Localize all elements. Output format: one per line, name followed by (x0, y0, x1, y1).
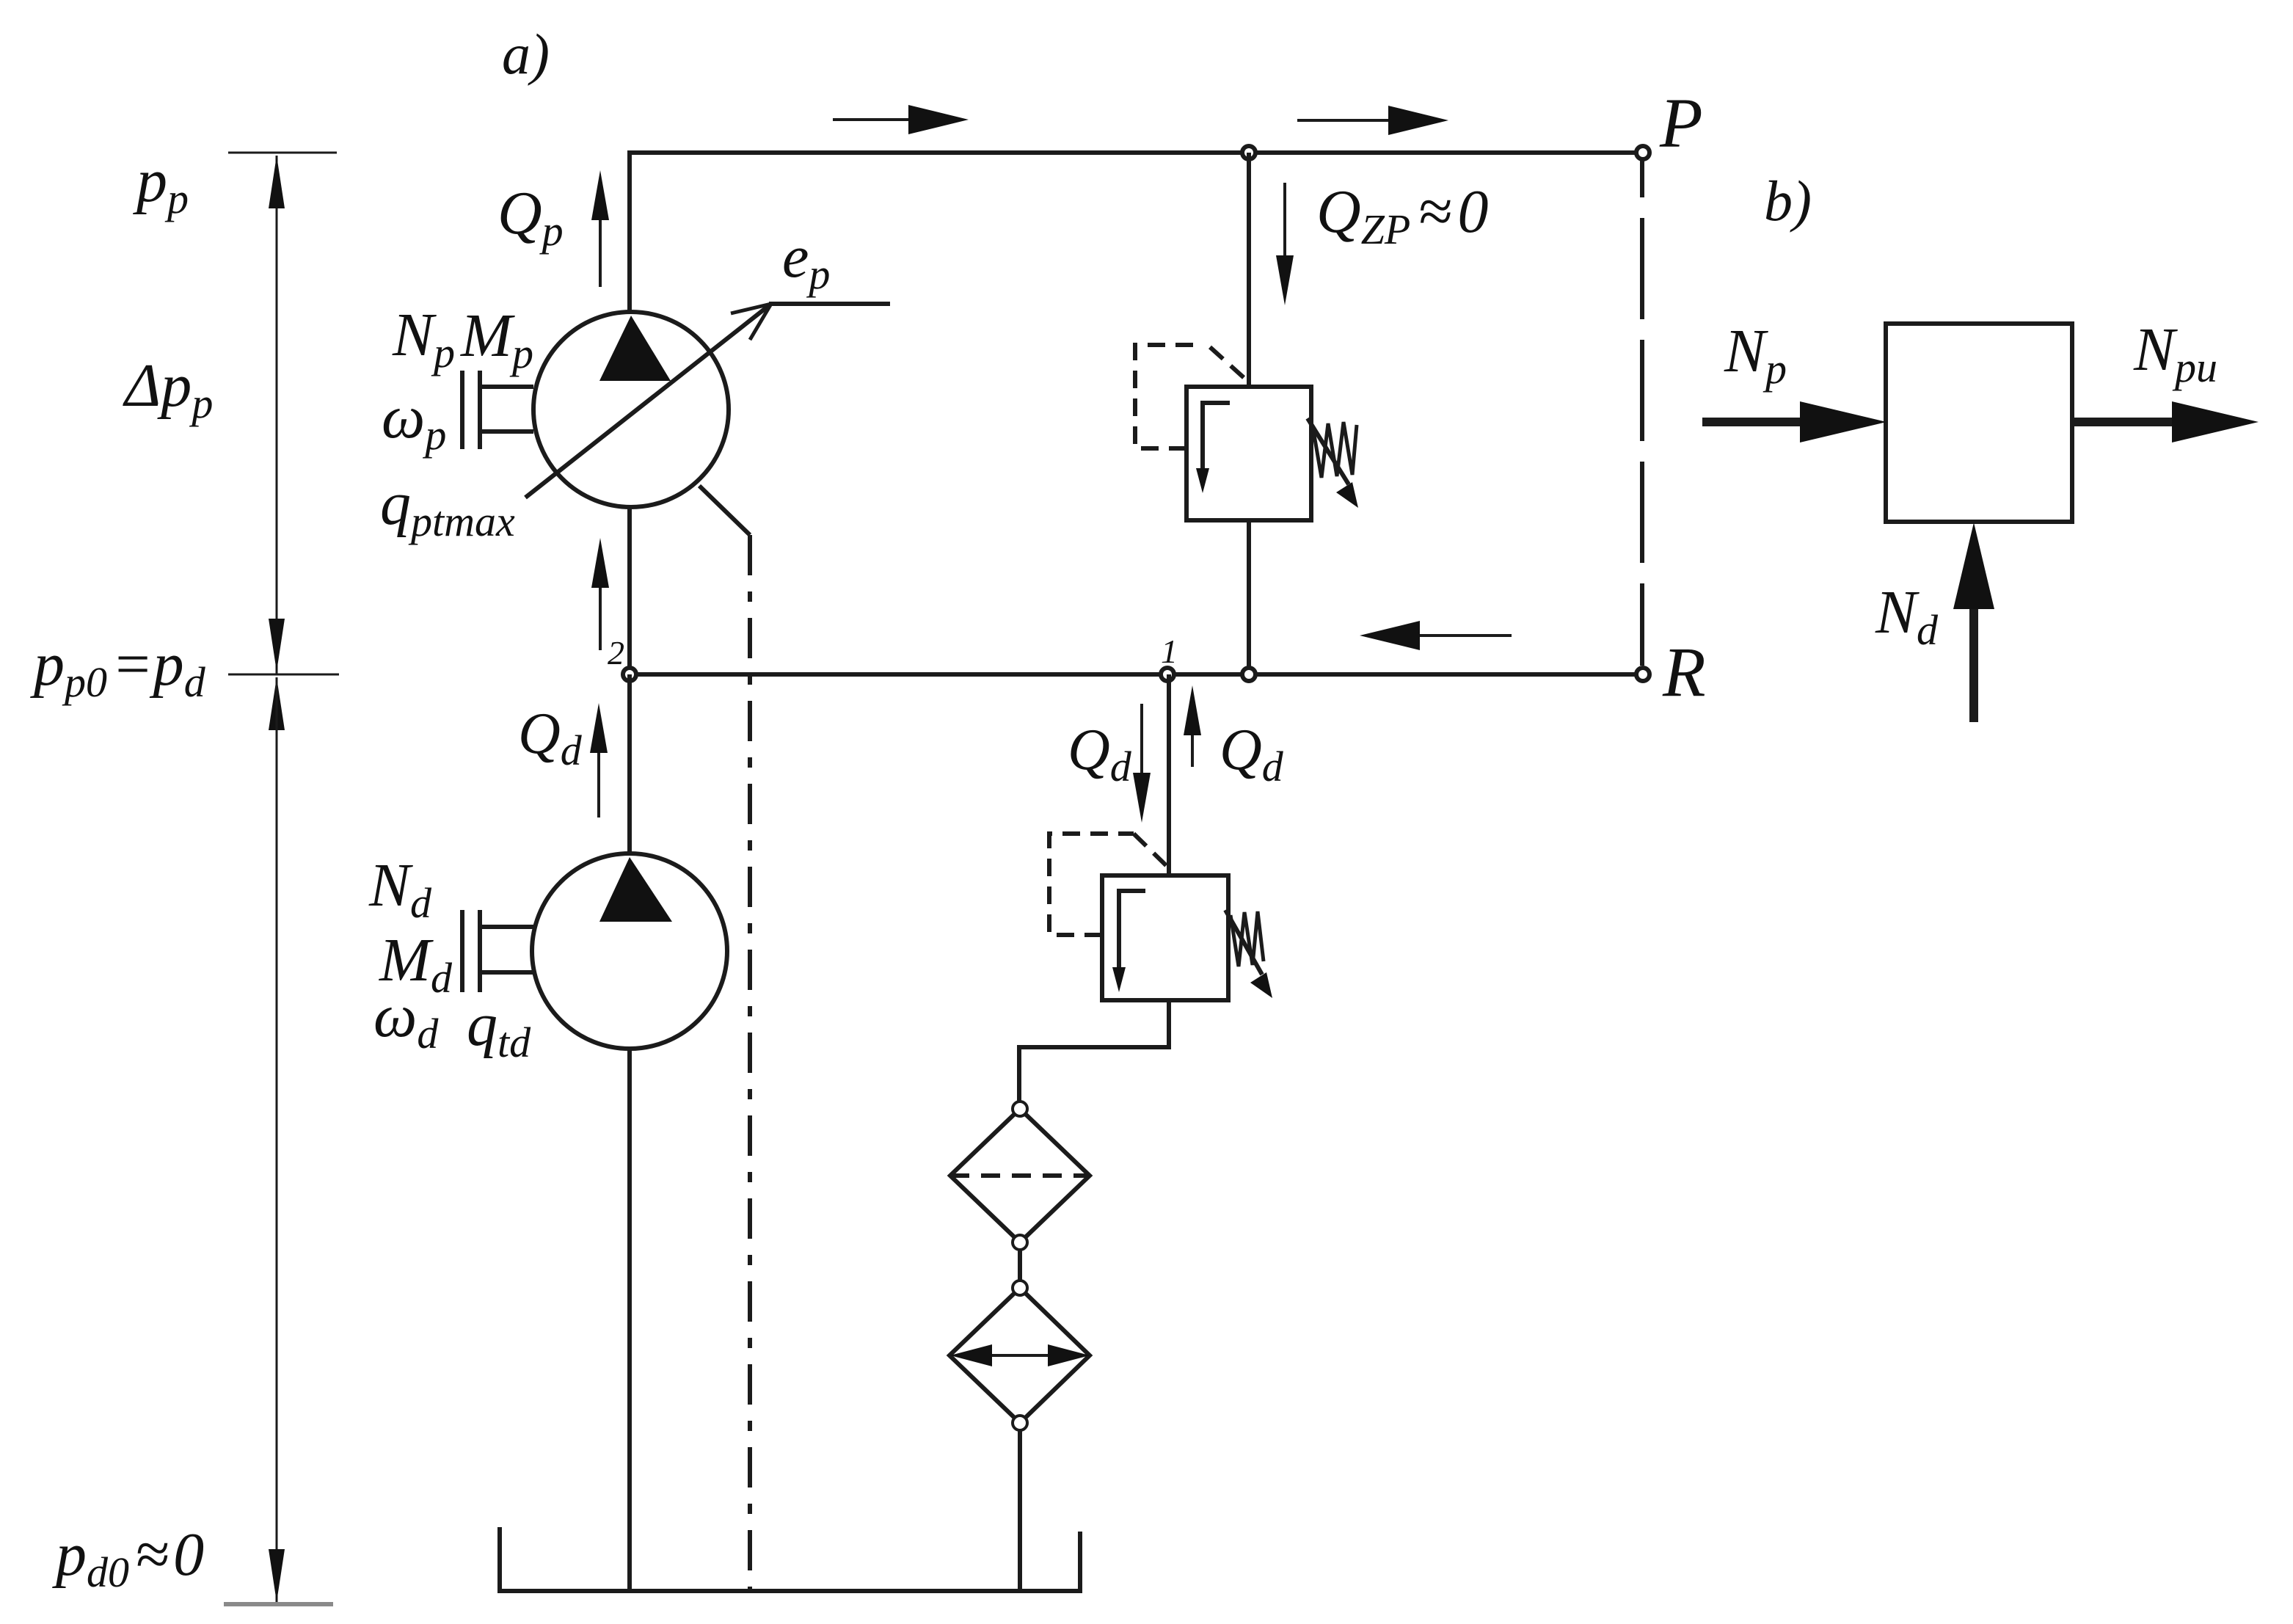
filter F1 element (dashed) (950, 1173, 1090, 1178)
wire: return line R (630, 672, 1643, 677)
relief valve V1 body (1186, 387, 1311, 520)
wire node 2 to boost pump (627, 674, 632, 853)
svg-text:2: 2 (608, 634, 624, 671)
power balance box (1886, 324, 2072, 522)
valve V2 spring (1231, 911, 1264, 966)
svg-text:1: 1 (1161, 633, 1178, 670)
dashed load line P-R (1640, 161, 1644, 666)
Q_ZP flow arrow (1283, 183, 1286, 264)
wire pump outlet to node 2 (627, 507, 632, 674)
dimension arrow up at top (269, 156, 285, 208)
wire filter to cooler (1018, 1250, 1022, 1280)
dimension arrow down at middle (269, 619, 285, 671)
filter F1 diamond (950, 1109, 1090, 1242)
dimension tick bottom (grey) (224, 1602, 333, 1606)
dimension arrow down at bottom (269, 1549, 285, 1602)
node 1 on R line (1161, 668, 1174, 681)
dimension tick middle (228, 674, 339, 676)
flow arrow on R line (pointing left) (1416, 634, 1512, 637)
node V1 outlet on R (1242, 668, 1255, 681)
svg-text:P: P (1659, 84, 1703, 162)
flow arrow on top line (right) (1297, 119, 1390, 122)
suction flow arrow above node 2 (599, 583, 602, 650)
valve V2 internal arrow (1119, 891, 1145, 972)
Q_d flow arrow below node 2 (597, 749, 600, 818)
pump P2 shaft symbol (460, 910, 464, 992)
node 2 (623, 668, 636, 681)
svg-text:b): b) (1764, 169, 1812, 233)
valve V1 adjust arrow (1308, 418, 1349, 484)
svg-text:pp0=pd: pp0=pd (30, 630, 206, 706)
valve V2 pilot dashed line (1049, 834, 1134, 935)
wire cooler to tank (1018, 1431, 1022, 1591)
e_p reference line (769, 302, 890, 306)
wire: top pressure line P (630, 153, 1643, 311)
Q_d down arrow at node 1 (1140, 704, 1143, 782)
valve V2 outlet wire (1019, 1000, 1169, 1102)
pump P1 triangle (599, 316, 671, 381)
wire to relief valve 1 (1247, 153, 1251, 387)
pump P1 case drain line (699, 486, 750, 535)
pump P2 suction line to tank (627, 1049, 632, 1591)
valve V1 internal arrow (1203, 403, 1230, 473)
drain dash-dot line to tank (748, 535, 752, 1591)
N_pu output arrow (2072, 418, 2178, 426)
cooler HE1 arrows (967, 1354, 1073, 1357)
cooler HE1 bottom port circle (1013, 1416, 1027, 1430)
node on top line to relief valve 1 (1242, 146, 1255, 159)
N_p input arrow (1702, 418, 1807, 426)
flow arrow on top line (left) (833, 118, 917, 121)
dimension line pp/dpp (276, 156, 278, 674)
svg-text:a): a) (502, 22, 550, 86)
node R (1636, 668, 1649, 681)
relief valve V2 body (1102, 875, 1228, 1000)
svg-text:R: R (1662, 633, 1706, 711)
wire node 1 to relief valve 2 (1167, 674, 1171, 875)
tank T1 (500, 1527, 1080, 1591)
Q_p flow arrow (599, 216, 602, 287)
variable pump P1: circle (533, 312, 729, 507)
valve V1 spring (1313, 422, 1357, 478)
valve V2 adjust arrow (1225, 910, 1262, 975)
boost pump P2: circle (532, 853, 727, 1049)
dimension line pd0 (276, 677, 278, 1602)
cooler HE1 diamond (949, 1288, 1090, 1423)
N_d input arrow (1969, 605, 1978, 722)
node P (1636, 146, 1649, 159)
cooler HE1 top port circle (1013, 1281, 1027, 1295)
pump P1 variable arrow (525, 304, 771, 498)
dimension tick top (228, 152, 337, 154)
filter F1 bottom port circle (1013, 1235, 1027, 1250)
valve V1 outlet wire (1247, 520, 1251, 674)
valve V1 pilot dashed line (1135, 345, 1196, 448)
dimension arrow up below middle (269, 677, 285, 730)
Q_d up arrow at node 1 (1191, 731, 1194, 767)
pump P1 shaft symbol (460, 371, 464, 449)
filter F1 top port circle (1013, 1102, 1027, 1116)
pump P2 triangle (599, 857, 672, 922)
